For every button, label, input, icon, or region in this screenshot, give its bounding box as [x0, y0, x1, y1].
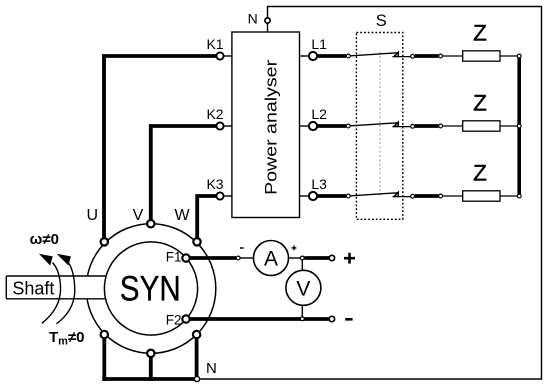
- wire L2 to switch: [317, 124, 346, 128]
- wire machine star bus: [102, 377, 197, 381]
- svg-text:N: N: [206, 360, 217, 377]
- label U: [87, 207, 99, 224]
- rotation arrow arc 1: [39, 254, 61, 323]
- terminal V (top): [147, 220, 154, 227]
- svg-text:K1: K1: [206, 36, 223, 52]
- voltmeter V: [286, 270, 321, 305]
- wire L3 to switch: [317, 194, 346, 198]
- label W: [174, 207, 190, 224]
- label omega not zero: [30, 231, 59, 248]
- machine SYN outer stator circle: [86, 224, 216, 354]
- wire switch to Z2: [415, 124, 439, 128]
- impedance Z1: [463, 21, 500, 62]
- label F1: [166, 250, 182, 265]
- pin stub K3: [224, 195, 232, 197]
- label minus at ammeter: [240, 247, 244, 249]
- terminal SW (star): [101, 331, 108, 338]
- label L3: [311, 176, 327, 192]
- node on F2 wire: [300, 317, 304, 321]
- node at ammeter output: [300, 256, 304, 260]
- power analyser box: [232, 32, 300, 218]
- label L2: [311, 106, 327, 122]
- node before Z2: [439, 124, 443, 128]
- svg-text:Z: Z: [473, 91, 487, 116]
- label plus at ammeter: [292, 246, 297, 251]
- wire U to K1: [104, 56, 217, 240]
- label minus: [345, 318, 352, 321]
- svg-text:L1: L1: [311, 36, 327, 52]
- machine SYN inner rotor circle: [104, 242, 197, 335]
- wire node to Z1: [443, 55, 463, 57]
- label N bottom: [206, 360, 217, 377]
- svg-text:Z: Z: [473, 161, 487, 186]
- switch pole phase L1: [346, 52, 414, 58]
- wire SE terminal to star bus: [195, 336, 199, 381]
- label K3: [206, 176, 223, 192]
- impedance Z2: [463, 91, 500, 132]
- label N top: [248, 11, 258, 27]
- svg-text:K3: K3: [206, 176, 223, 192]
- pin stub N: [267, 24, 269, 32]
- label K2: [206, 106, 223, 122]
- svg-text:L2: L2: [311, 106, 327, 122]
- node before Z3: [439, 194, 443, 198]
- wire node to Z3: [443, 195, 463, 197]
- svg-text:F1: F1: [166, 250, 182, 265]
- wire Z2 to star node: [500, 125, 517, 127]
- wire switch to Z3: [415, 194, 439, 198]
- wire node to Z2: [443, 125, 463, 127]
- svg-text:W: W: [174, 207, 190, 224]
- terminal F1: [182, 254, 189, 261]
- terminal plus: [329, 255, 334, 260]
- terminal U: [101, 238, 108, 245]
- machine label SYN: [120, 269, 181, 308]
- label Tm not zero: [49, 329, 85, 348]
- wire voltmeter to node: [301, 305, 303, 317]
- pin stub L1: [300, 55, 309, 57]
- svg-text:L3: L3: [311, 176, 327, 192]
- switch S enclosure (dashed): [356, 33, 402, 220]
- switch coupling link: [379, 52, 381, 197]
- svg-text:U: U: [87, 207, 99, 224]
- svg-text:Z: Z: [473, 21, 487, 46]
- node star L2: [517, 124, 521, 128]
- terminal S bottom (star): [147, 350, 154, 357]
- label plus: [344, 253, 355, 264]
- switch pole phase L2: [346, 122, 414, 128]
- terminal K2: [216, 122, 223, 129]
- svg-text:A: A: [264, 248, 278, 271]
- label V: [133, 207, 144, 224]
- terminal minus: [329, 316, 334, 321]
- terminal L2: [309, 122, 317, 130]
- terminal SE (star): [193, 331, 200, 338]
- wire node to plus terminal: [305, 256, 330, 260]
- svg-text:N: N: [248, 11, 258, 27]
- terminal W: [193, 238, 200, 245]
- pin stub L2: [300, 125, 309, 127]
- node N junction at machine star: [194, 376, 199, 381]
- wire L1 to switch: [317, 54, 346, 58]
- svg-text:ω≠0: ω≠0: [30, 231, 59, 248]
- wire Z1 to star node: [500, 55, 517, 57]
- wire Z3 to star node: [500, 195, 517, 197]
- node before Z1: [439, 54, 443, 58]
- terminal K3: [216, 192, 223, 199]
- terminal L1: [309, 52, 317, 60]
- svg-text:S: S: [376, 12, 387, 30]
- shaft bar: [6, 276, 105, 299]
- wire S terminal to star bus: [149, 355, 153, 381]
- wire node to voltmeter: [301, 260, 303, 270]
- terminal K1: [216, 52, 223, 59]
- label L1: [311, 36, 327, 52]
- wire V to K2: [151, 126, 217, 222]
- terminal F2: [182, 315, 189, 322]
- pin stub L3: [300, 195, 309, 197]
- label K1: [206, 36, 223, 52]
- wire switch to Z1: [415, 54, 439, 58]
- wire F2 to minus terminal: [189, 317, 329, 321]
- svg-text:V: V: [133, 207, 144, 224]
- rotation arrow arc 2: [57, 254, 75, 324]
- pin stub K1: [224, 55, 232, 57]
- wire W to K3: [197, 196, 216, 240]
- svg-text:F2: F2: [166, 312, 182, 327]
- wire N loop (star point to analyser neutral): [197, 7, 542, 380]
- svg-text:K2: K2: [206, 106, 223, 122]
- label S: [376, 12, 387, 30]
- node on F1 wire: [236, 256, 240, 260]
- wire node to ammeter: [241, 257, 255, 259]
- pin stub K2: [224, 125, 232, 127]
- impedance Z3: [463, 161, 500, 202]
- label F2: [166, 312, 182, 327]
- wire SW terminal to star bus: [102, 336, 106, 381]
- shaft label: [12, 279, 54, 299]
- node star L3: [517, 194, 521, 198]
- wire load star bus: [517, 56, 521, 196]
- svg-text:V: V: [296, 277, 310, 300]
- svg-text:Shaft: Shaft: [12, 279, 54, 299]
- wire ammeter to node: [289, 257, 301, 259]
- wire F1 to ammeter: [189, 256, 236, 260]
- ammeter A: [254, 241, 289, 276]
- svg-text:Power analyser: Power analyser: [262, 60, 281, 195]
- svg-text:SYN: SYN: [120, 269, 181, 308]
- switch pole phase L3: [346, 192, 414, 198]
- terminal N (analyser neutral): [265, 18, 270, 23]
- node star L1: [517, 54, 521, 58]
- terminal L3: [309, 192, 317, 200]
